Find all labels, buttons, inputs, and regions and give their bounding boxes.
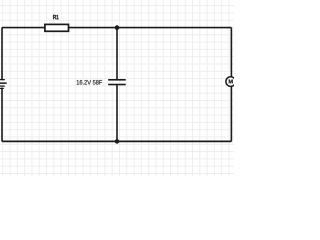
capacitor plate bottom: [108, 84, 126, 86]
battery plate short top: [0, 79, 5, 80]
battery terminal stub bottom: [0, 88, 4, 89]
resistor R1: [45, 24, 69, 31]
wire top: left corner to right corner: [2, 27, 231, 29]
node junction top (capacitor branch): [115, 25, 120, 30]
wire left: top corner down to battery: [1, 28, 3, 80]
capacitor plate top: [108, 79, 126, 81]
battery plate long middle: [0, 82, 7, 84]
node junction bottom (capacitor branch): [115, 139, 120, 144]
wire left lower: battery down to bottom corner: [1, 88, 3, 142]
wire middle upper: top junction down to capacitor: [116, 28, 118, 80]
wire right lower: motor down to bottom corner: [230, 87, 232, 142]
motor M (clipped at right edge): [226, 77, 236, 87]
capacitor C1: [108, 79, 126, 85]
label R1: [53, 15, 59, 19]
wire bottom: left corner to right corner: [2, 140, 231, 142]
wire right upper: top corner down to motor: [230, 28, 232, 77]
label 16.2V 58F: [77, 80, 103, 85]
wire middle lower: capacitor down to bottom junction: [116, 85, 118, 141]
battery B1 (clipped at left edge): [0, 79, 7, 89]
label M: [229, 80, 233, 84]
battery plate short bottom: [0, 85, 5, 86]
